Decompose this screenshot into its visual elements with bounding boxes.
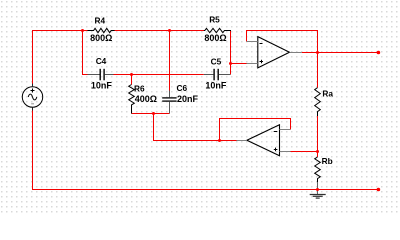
resistor R6 (129, 84, 157, 114)
svg-text:C4: C4 (96, 56, 107, 66)
resistor Rb (315, 156, 333, 182)
op-amp U1 (247, 37, 302, 68)
node endpoint dot output (377, 51, 381, 55)
node junction dot A (81, 29, 84, 32)
wire U2 feedback output to minus input (220, 119, 291, 141)
wire node C to op-amp U1 plus input (231, 63, 247, 65)
svg-text:C6: C6 (177, 83, 188, 93)
svg-text:C5: C5 (211, 57, 222, 67)
svg-text:800Ω: 800Ω (90, 33, 112, 43)
wire U2 output to bootstrap node (154, 114, 237, 141)
node junction dot B (168, 29, 171, 32)
AC source V1 (22, 84, 42, 111)
capacitor C6 (162, 83, 198, 114)
svg-text:10nF: 10nF (91, 81, 113, 91)
wire C4 right to C5 left (114, 74, 204, 76)
wire R6 top (131, 75, 133, 85)
capacitor C5 (204, 57, 231, 91)
wire U1 output to right endpoint (302, 52, 379, 54)
resistor R4 (88, 15, 115, 43)
capacitor C4 (88, 56, 114, 91)
svg-text:R5: R5 (209, 15, 220, 25)
wire Ra bottom to Rb top (317, 116, 319, 157)
svg-text:R6: R6 (134, 84, 145, 94)
wire node B down to C6 (169, 31, 171, 91)
wire source bottom to ground rail (33, 107, 379, 189)
svg-text:10nF: 10nF (205, 81, 227, 91)
svg-text:20nF: 20nF (177, 94, 199, 104)
resistor Ra (315, 88, 334, 116)
resistor R5 (204, 15, 231, 44)
svg-text:Ra: Ra (322, 89, 333, 99)
wire R5 right down to C5 right (230, 31, 232, 75)
node junction dot U1 output (316, 51, 319, 54)
node junction dot U2 output feedback (218, 139, 221, 142)
node junction dot R6 top (130, 73, 133, 76)
svg-text:400Ω: 400Ω (135, 94, 157, 104)
op-amp U2 (237, 125, 291, 156)
node junction dot ground rail (316, 188, 319, 191)
node junction dot Ra Rb divider (316, 150, 319, 153)
wire node D to op-amp U2 plus input (291, 151, 318, 153)
node junction dot bootstrap (152, 112, 155, 115)
node endpoint dot ground rail (377, 188, 381, 192)
wire R4 right to R5 left (115, 30, 205, 32)
wire source top to node A (33, 31, 88, 88)
node junction dot C (229, 62, 232, 65)
wire U1 feedback output to minus input (247, 31, 318, 53)
svg-text:Rb: Rb (322, 156, 333, 166)
svg-text:800Ω: 800Ω (204, 33, 226, 43)
wire node A down to C4 (83, 31, 88, 75)
svg-text:R4: R4 (94, 15, 105, 25)
wire bootstrap rail R6 bottom to C6 bottom (132, 113, 170, 115)
wire output node down to Ra (317, 53, 319, 88)
ground (310, 182, 326, 198)
